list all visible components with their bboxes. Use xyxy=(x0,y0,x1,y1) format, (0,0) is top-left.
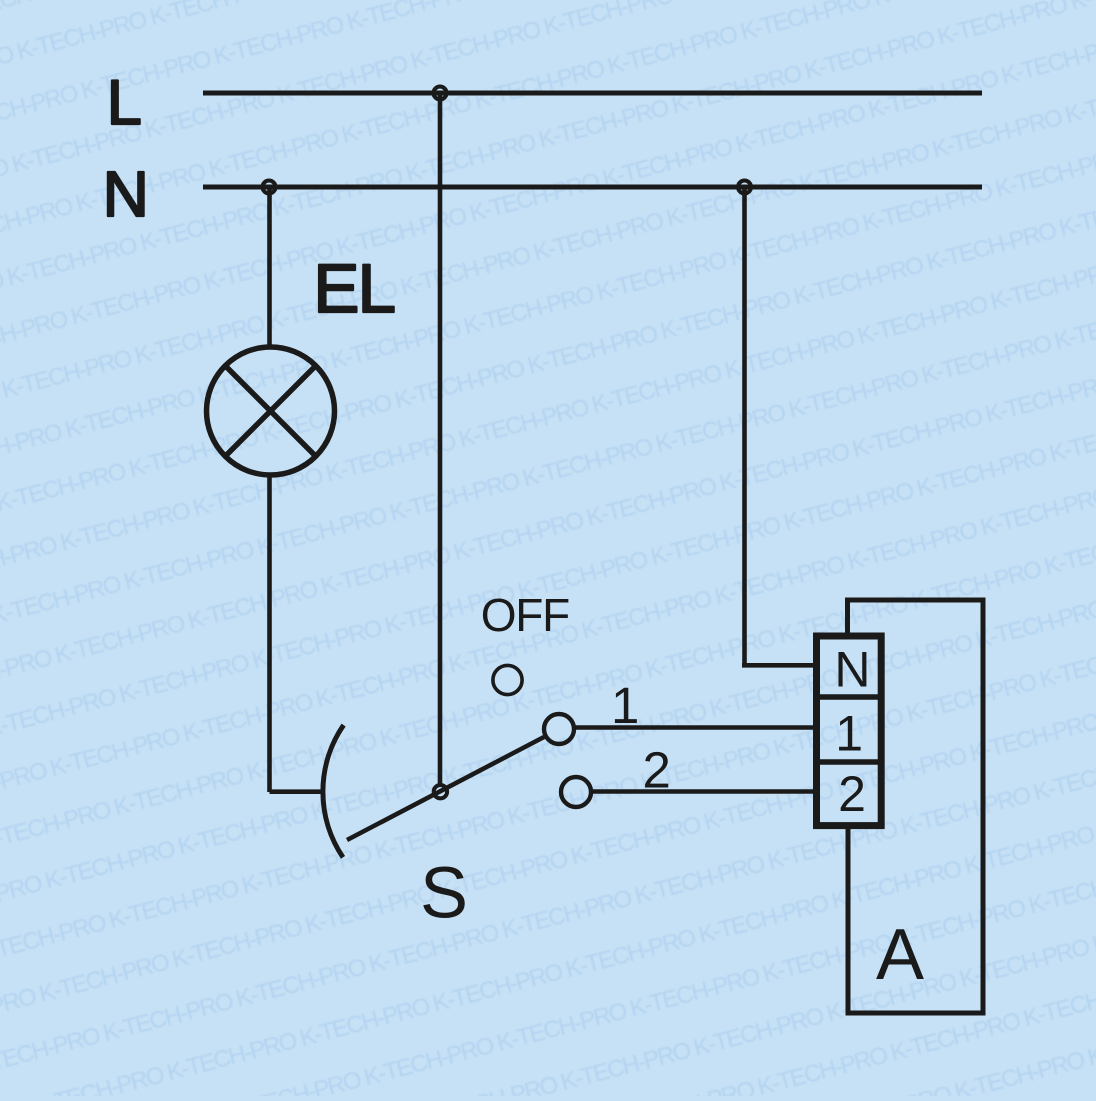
lamp EL cross line 1 xyxy=(225,366,316,457)
switch pivot node xyxy=(434,785,447,798)
switch S lever xyxy=(347,737,544,840)
terminal divider N/1 xyxy=(814,694,884,700)
switch OFF contact xyxy=(493,665,522,694)
N bus line xyxy=(203,185,982,190)
svg-text:1: 1 xyxy=(835,706,863,762)
wire: lamp bottom to switch arc xyxy=(270,789,323,794)
junction node on N (lamp) xyxy=(263,181,276,194)
terminal block outline xyxy=(817,636,882,826)
wire: N to terminal N (horizontal) xyxy=(742,663,814,668)
svg-text:OFF: OFF xyxy=(481,589,569,641)
wire: lamp EL bottom down xyxy=(267,475,272,792)
junction node on N (to terminal) xyxy=(738,181,751,194)
wire: N junction down to lamp EL xyxy=(267,189,272,347)
lamp EL cross line 2 xyxy=(225,366,316,457)
wire: N down to terminal N (vertical) xyxy=(742,189,747,665)
wire: vertical from L junction to switch pivot xyxy=(438,95,443,785)
wire 1: switch contact 1 to terminal 1 xyxy=(574,725,814,730)
wire 2: switch contact 2 to terminal 2 xyxy=(591,789,814,794)
svg-text:2: 2 xyxy=(838,766,866,822)
svg-text:S: S xyxy=(420,854,468,934)
junction node on L xyxy=(434,87,447,100)
switch contact 1 xyxy=(544,714,574,744)
svg-text:1: 1 xyxy=(611,677,639,734)
svg-text:L: L xyxy=(107,68,142,138)
lamp EL circle xyxy=(207,347,335,475)
svg-text:2: 2 xyxy=(643,742,671,799)
svg-text:EL: EL xyxy=(313,250,394,327)
terminal divider 1/2 xyxy=(814,759,884,765)
svg-text:N: N xyxy=(103,158,149,230)
L bus line xyxy=(203,91,982,96)
appliance A outline xyxy=(848,600,984,1013)
switch S travel arc xyxy=(323,725,344,857)
svg-text:A: A xyxy=(876,915,924,995)
switch contact 2 xyxy=(561,777,591,807)
svg-text:N: N xyxy=(834,641,870,697)
